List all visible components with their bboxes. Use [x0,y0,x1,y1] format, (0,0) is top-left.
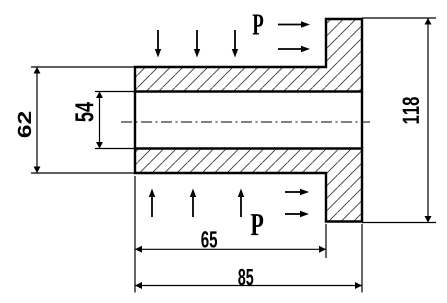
centerline axis (dash-dot) [121,121,370,123]
dimension 54 [75,92,135,149]
arrowhead right 85 [355,282,362,289]
dimension line 85 [135,285,362,287]
arrowhead down 118 [425,216,432,223]
upper wall cross-section with flange (hatched) [135,19,362,92]
force arrow P top right 1 [278,21,310,27]
distributed load arrow down 1 [155,30,161,58]
dimension line 54 [99,92,101,149]
dimension 118 [362,18,436,223]
dimension 62 [18,67,135,173]
distributed load arrow up 3 [238,189,244,218]
arrowhead down 54 [96,142,103,149]
force arrow P bottom right 1 [285,189,309,195]
dimension line 62 [36,67,38,173]
distributed load arrow up 2 [190,189,196,218]
extension line top of 54 [95,91,135,93]
arrowhead up 54 [96,92,103,99]
extension line right of 85 [361,224,363,293]
left end face edge across bore [134,92,136,149]
dimension 65 [135,224,326,258]
extension line bottom of 62 [31,172,135,174]
arrowhead left 85 [135,282,142,289]
label 85 [238,269,253,285]
label 62 [18,112,31,137]
arrowhead up 118 [425,18,432,25]
dimension line 65 [135,248,326,250]
extension line left of 85 [134,176,136,293]
arrowhead down 62 [34,167,41,174]
dimension line 118 [427,18,429,223]
force arrow P top right 2 [278,46,310,52]
distributed load arrow up 1 [149,189,155,218]
lower wall cross-section with flange (hatched) [135,149,362,222]
force arrow P bottom right 2 [285,211,309,217]
label 54 [75,102,93,121]
extension line right of 65 [325,224,327,258]
force label P bottom [251,214,263,235]
arrowhead up 62 [34,67,41,74]
dimension 85 [135,176,362,293]
distributed load arrow down 2 [194,30,200,58]
force label P top [253,15,264,35]
extension line bottom of 118 [362,222,436,224]
label 118 [402,97,419,123]
extension line top of 118 [362,17,436,19]
right flange face edge across bore [361,92,363,149]
arrowhead left 65 [135,246,142,253]
extension line bottom of 54 [95,148,135,150]
extension line top of 62 [31,66,135,68]
label 65 [201,231,217,247]
distributed load arrow down 3 [232,30,238,58]
arrowhead right 65 [319,246,326,253]
